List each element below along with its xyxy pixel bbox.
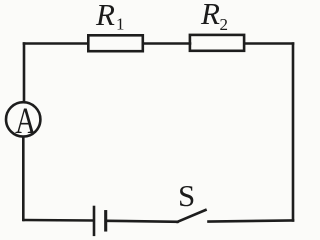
svg-text:R: R xyxy=(200,0,220,31)
svg-text:1: 1 xyxy=(116,15,125,34)
svg-text:A: A xyxy=(15,100,36,141)
svg-text:2: 2 xyxy=(220,15,229,34)
svg-text:R: R xyxy=(95,0,115,32)
svg-text:S: S xyxy=(178,178,195,213)
